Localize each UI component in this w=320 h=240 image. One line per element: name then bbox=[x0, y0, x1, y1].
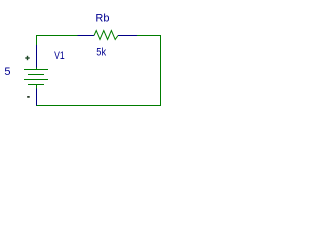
battery V1 short plate 1 bbox=[28, 74, 44, 76]
battery V1 bottom pin bbox=[36, 89, 38, 106]
svg-text:5: 5 bbox=[4, 66, 10, 78]
battery V1 short plate 2 bbox=[28, 84, 44, 86]
svg-text:V1: V1 bbox=[54, 50, 65, 62]
wire top segment into resistor left lead bbox=[78, 35, 95, 37]
resistor Rb bbox=[94, 31, 118, 40]
battery V1 top pin bbox=[36, 45, 38, 68]
wire from V1 plus terminal to top-left corner and right toward Rb bbox=[37, 36, 78, 46]
resistor Rb right lead wire bbox=[118, 35, 137, 37]
svg-text:5k: 5k bbox=[96, 47, 106, 59]
minus polarity mark of V1 bbox=[27, 96, 30, 98]
svg-text:Rb: Rb bbox=[95, 12, 109, 24]
battery V1 long plate 1 bbox=[24, 69, 48, 71]
battery V1 top plate stub bbox=[36, 68, 38, 70]
battery V1 bottom plate stub bbox=[36, 85, 38, 89]
plus polarity mark of V1 bbox=[25, 56, 29, 60]
battery V1 long plate 2 bbox=[24, 79, 48, 81]
wire from Rb right lead to top-right corner, down right side, and bottom back to V1 bbox=[36, 36, 161, 106]
